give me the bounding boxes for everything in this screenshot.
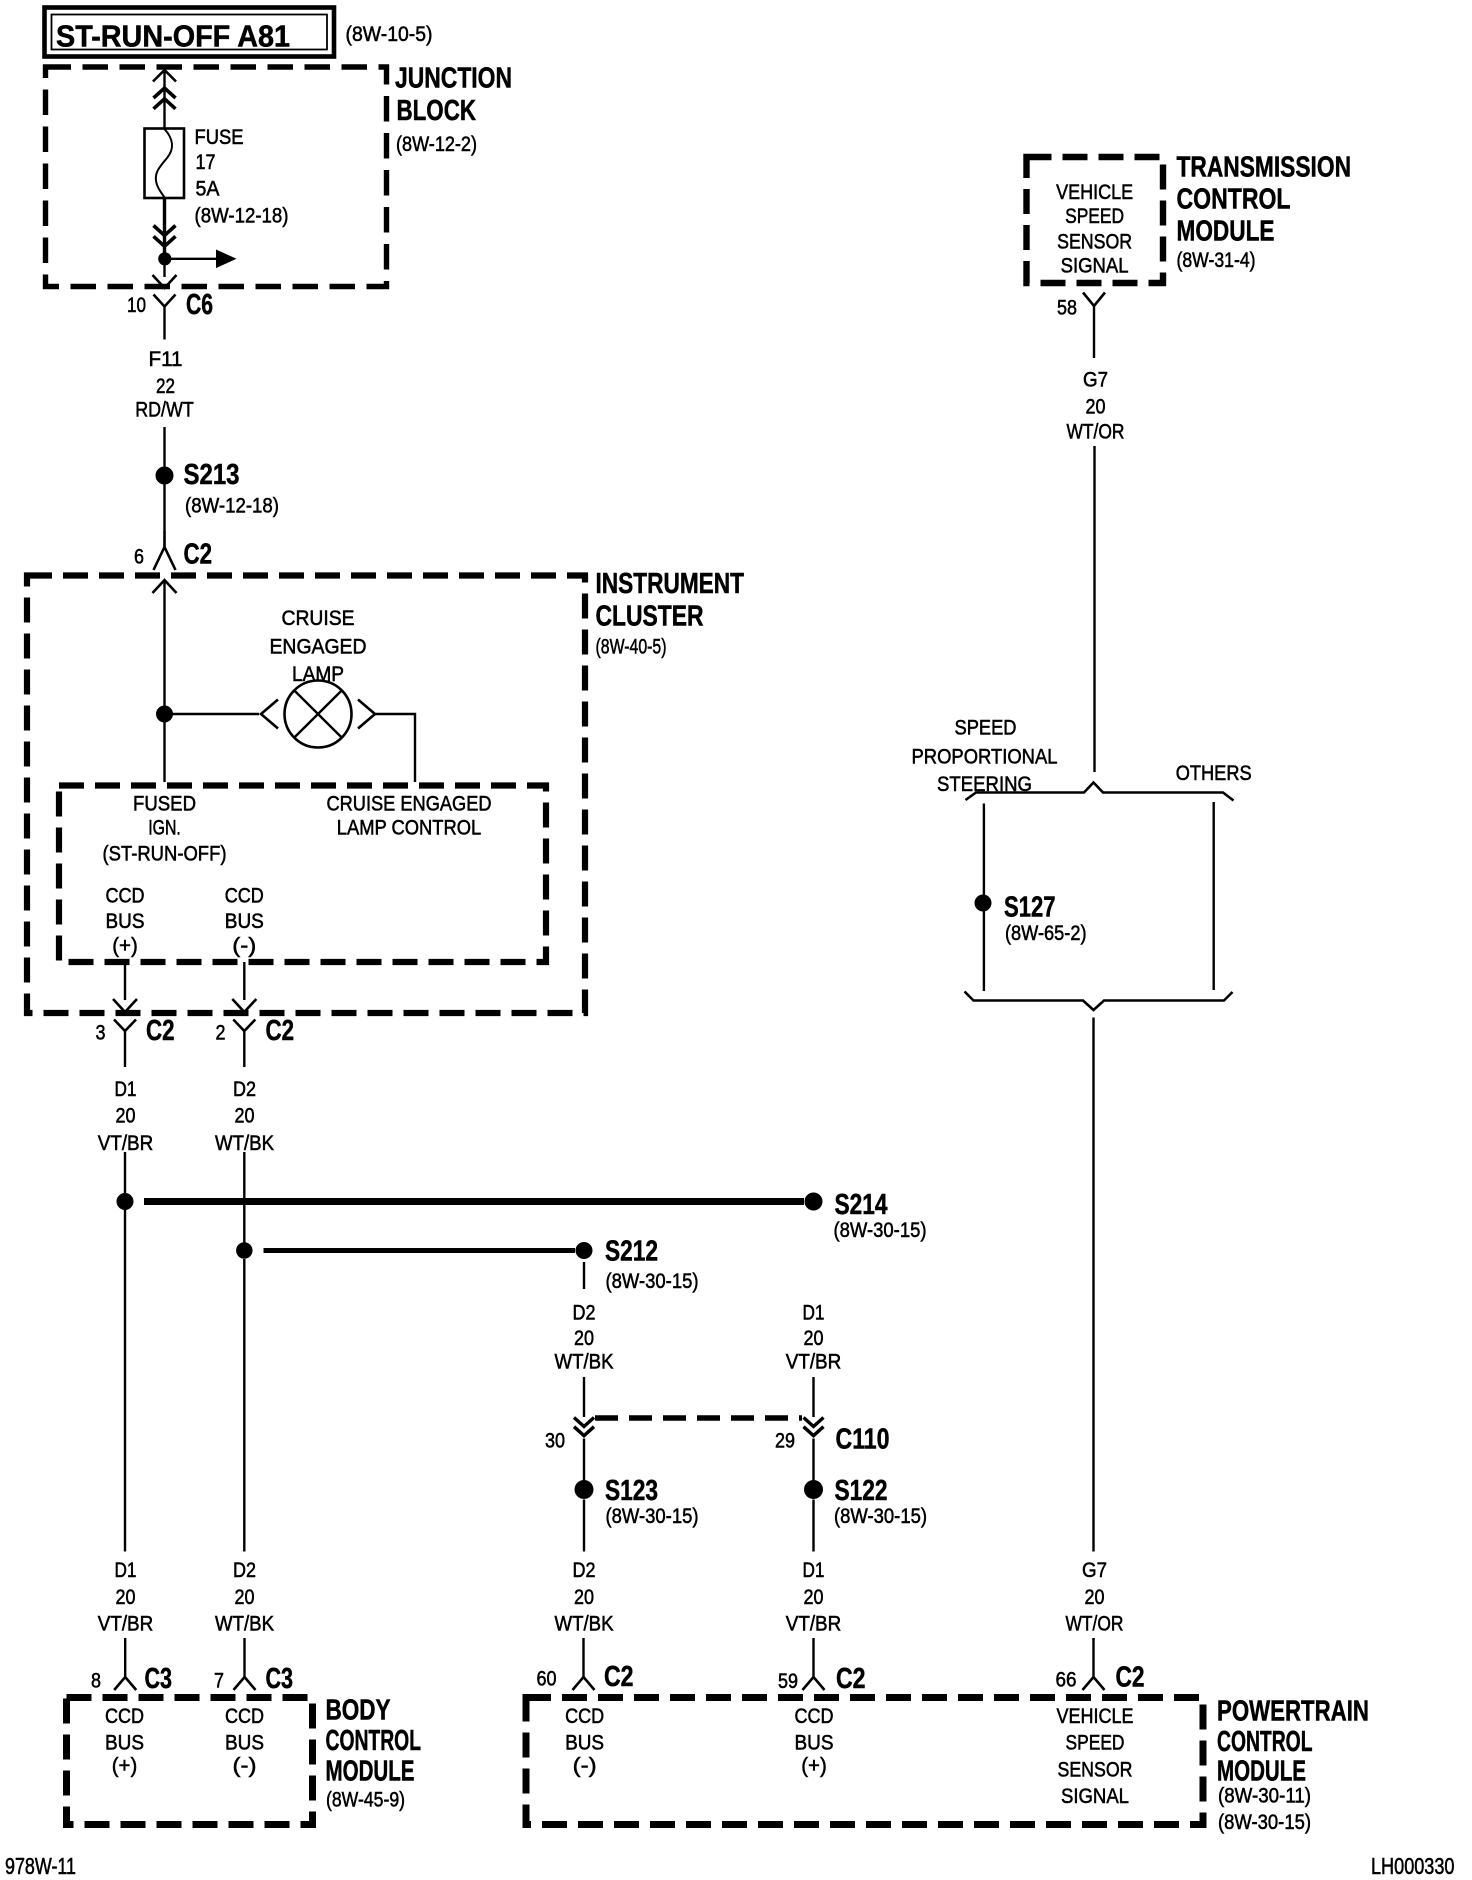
svg-text:LAMP CONTROL: LAMP CONTROL — [337, 816, 482, 840]
transmission control module title — [1177, 152, 1352, 273]
svg-text:WT/BK: WT/BK — [555, 1350, 615, 1374]
BCM pin label CCD BUS (+) — [105, 1704, 144, 1778]
wire: G7 to PCM — [1092, 1018, 1094, 1552]
pin 7 — [214, 1669, 224, 1693]
wire label D1 20 VT/BR (BCM) — [98, 1558, 154, 1636]
svg-text:S123: S123 — [605, 1475, 658, 1507]
cruise engaged lamp — [285, 681, 352, 748]
label C6 — [186, 289, 213, 321]
svg-text:VT/BR: VT/BR — [786, 1612, 842, 1636]
svg-text:66: 66 — [1056, 1668, 1077, 1692]
wire label D2 20 WT/BK (to C110) — [555, 1301, 615, 1374]
wire label D1 20 VT/BR (PCM) — [786, 1558, 842, 1636]
svg-text:C6: C6 — [186, 289, 213, 321]
svg-text:20: 20 — [1085, 1585, 1105, 1609]
svg-text:(-): (-) — [232, 934, 256, 958]
svg-text:D2: D2 — [233, 1558, 256, 1582]
pin 10 — [127, 293, 146, 317]
svg-text:(-): (-) — [573, 1754, 597, 1778]
svg-text:S212: S212 — [605, 1236, 658, 1268]
powertrain control module title — [1217, 1696, 1369, 1835]
wire: S213 to C2 — [163, 485, 165, 548]
wire: C6 to S213 — [163, 427, 165, 467]
svg-text:20: 20 — [574, 1326, 594, 1350]
label OTHERS — [1176, 761, 1252, 785]
label C110 — [836, 1424, 890, 1456]
wire stub D1 left above labels — [124, 1064, 126, 1067]
svg-text:CCD: CCD — [225, 1704, 264, 1728]
splice S213 — [156, 459, 280, 518]
svg-text:IGN.: IGN. — [148, 816, 181, 840]
svg-text:VEHICLE: VEHICLE — [1057, 1704, 1134, 1728]
junction dot D2 bus — [236, 1242, 253, 1259]
pin 59 — [778, 1669, 798, 1693]
wire: S123 down — [583, 1500, 585, 1552]
svg-text:SENSOR: SENSOR — [1058, 1758, 1133, 1782]
svg-text:S214: S214 — [835, 1189, 888, 1221]
C110 double chevron pin 30 — [574, 1418, 594, 1436]
svg-text:59: 59 — [778, 1669, 798, 1693]
svg-text:SIGNAL: SIGNAL — [1061, 1784, 1129, 1808]
svg-text:D1: D1 — [803, 1558, 825, 1582]
svg-text:BUS: BUS — [795, 1731, 834, 1755]
wire: G7 down to brace — [1093, 446, 1095, 772]
svg-text:3: 3 — [96, 1021, 106, 1045]
svg-text:G7: G7 — [1082, 1558, 1107, 1582]
svg-text:LAMP: LAMP — [292, 662, 344, 686]
svg-text:OTHERS: OTHERS — [1176, 761, 1252, 785]
svg-text:ENGAGED: ENGAGED — [270, 635, 367, 659]
connector arrowhead at junction block top — [153, 70, 176, 82]
svg-text:20: 20 — [804, 1326, 824, 1350]
wire label D2 20 WT/BK (PCM) — [555, 1558, 615, 1636]
svg-text:S127: S127 — [1004, 892, 1056, 924]
svg-text:(8W-30-15): (8W-30-15) — [606, 1504, 699, 1528]
svg-text:BUS: BUS — [225, 1731, 264, 1755]
svg-text:2: 2 — [216, 1021, 226, 1045]
wire: G7 stub above pin 66 — [1092, 1638, 1094, 1640]
svg-text:C2: C2 — [1116, 1662, 1145, 1694]
TCM pin label VEHICLE SPEED SENSOR SIGNAL — [1056, 180, 1133, 278]
svg-text:BODY: BODY — [326, 1695, 391, 1727]
instrument cluster title — [596, 568, 745, 659]
svg-text:D2: D2 — [573, 1301, 596, 1325]
wire: WT/BK to C110 — [583, 1377, 585, 1417]
pin label CCD BUS (+) — [106, 884, 145, 958]
bus line to S214 — [144, 1198, 804, 1205]
svg-text:C2: C2 — [604, 1661, 634, 1693]
connector fork pin 58 — [1083, 293, 1105, 359]
C110 double chevron pin 29 — [804, 1418, 824, 1436]
svg-text:C2: C2 — [266, 1015, 295, 1047]
svg-text:VT/BR: VT/BR — [98, 1131, 154, 1155]
label C3 (pin7) — [266, 1663, 294, 1695]
svg-text:CCD: CCD — [106, 884, 145, 908]
in-line connector double chevron (fuse output) — [154, 226, 176, 247]
svg-text:BUS: BUS — [225, 909, 264, 933]
svg-text:C3: C3 — [145, 1663, 173, 1695]
chevron CCD+ at cluster edge — [113, 999, 137, 1012]
wire label G7 20 WT/OR (TCM) — [1067, 368, 1125, 444]
svg-text:(+): (+) — [801, 1754, 827, 1778]
svg-text:8: 8 — [91, 1669, 101, 1693]
wire: D1 bus down — [124, 1210, 126, 1552]
pin 3 — [96, 1021, 106, 1045]
connector C3 fork pin 7 — [234, 1638, 256, 1690]
svg-text:BUS: BUS — [106, 909, 145, 933]
junction block enclosure — [46, 67, 387, 287]
pin 30 — [545, 1429, 565, 1453]
svg-text:WT/BK: WT/BK — [215, 1612, 275, 1636]
svg-text:C2: C2 — [184, 539, 213, 571]
svg-text:D2: D2 — [573, 1558, 596, 1582]
svg-text:CONTROL: CONTROL — [1177, 184, 1291, 216]
connector C2 fork pin 60 — [573, 1638, 595, 1690]
svg-text:PROPORTIONAL: PROPORTIONAL — [912, 745, 1058, 769]
svg-text:F11: F11 — [149, 347, 183, 371]
wire: CCD- to cluster edge — [243, 962, 245, 1000]
svg-text:TRANSMISSION: TRANSMISSION — [1177, 152, 1352, 184]
svg-text:(8W-65-2): (8W-65-2) — [1005, 921, 1087, 945]
svg-text:(8W-12-2): (8W-12-2) — [396, 132, 477, 156]
cluster internal connector block — [59, 786, 546, 963]
wire: steering branch — [983, 804, 985, 992]
fuse value label FUSE 17 5A (8W-12-18) — [195, 125, 289, 228]
sheet number 978W-11 — [5, 1853, 76, 1879]
connector C2 fork (cluster input) — [154, 531, 176, 570]
svg-text:5A: 5A — [196, 177, 221, 201]
drawing number LH000330 — [1371, 1853, 1455, 1879]
svg-text:VT/BR: VT/BR — [786, 1350, 842, 1374]
svg-text:10: 10 — [127, 293, 146, 317]
svg-text:SPEED: SPEED — [955, 716, 1017, 740]
wire: tap down to C6 — [163, 265, 165, 277]
svg-text:RD/WT: RD/WT — [135, 398, 194, 422]
svg-text:17: 17 — [196, 150, 216, 174]
chevron into C6 — [153, 275, 177, 288]
svg-text:(8W-31-4): (8W-31-4) — [1177, 248, 1256, 272]
label C2 (pin60) — [604, 1661, 634, 1693]
svg-text:POWERTRAIN: POWERTRAIN — [1217, 1696, 1369, 1728]
svg-text:CONTROL: CONTROL — [1217, 1726, 1313, 1758]
pin 29 — [775, 1429, 795, 1453]
splice S212 — [576, 1236, 699, 1294]
in-line connector double chevron (feed) — [154, 88, 176, 109]
svg-text:C2: C2 — [146, 1015, 175, 1047]
svg-text:CLUSTER: CLUSTER — [596, 601, 704, 633]
svg-text:BLOCK: BLOCK — [397, 95, 477, 127]
svg-text:LH000330: LH000330 — [1371, 1853, 1455, 1879]
svg-text:CRUISE: CRUISE — [282, 606, 355, 630]
connector C2 fork pin 3 — [114, 1020, 136, 1065]
svg-text:D2: D2 — [233, 1077, 256, 1101]
wire label G7 20 WT/OR (PCM) — [1066, 1558, 1124, 1636]
junction node (lamp tap) — [156, 706, 173, 723]
connector C3 fork pin 8 — [114, 1638, 136, 1690]
wire: VT/BR to C110 — [812, 1377, 814, 1417]
pin label CRUISE ENGAGED LAMP CONTROL — [327, 792, 492, 840]
chevron CCD- at cluster edge — [232, 999, 256, 1012]
svg-text:D1: D1 — [115, 1558, 137, 1582]
svg-text:30: 30 — [545, 1429, 565, 1453]
svg-text:MODULE: MODULE — [326, 1756, 415, 1788]
svg-text:58: 58 — [1057, 296, 1077, 320]
svg-text:ST-RUN-OFF A81: ST-RUN-OFF A81 — [56, 19, 290, 54]
pin label FUSED IGN (ST-RUN-OFF) — [103, 792, 227, 866]
wire: D2 to S212 bus — [243, 1152, 245, 1243]
svg-text:CRUISE ENGAGED: CRUISE ENGAGED — [327, 792, 492, 816]
svg-text:BUS: BUS — [105, 1731, 144, 1755]
svg-text:(8W-10-5): (8W-10-5) — [346, 22, 433, 46]
pin 8 — [91, 1669, 101, 1693]
wire: S122 down — [812, 1500, 814, 1552]
svg-text:(8W-30-15): (8W-30-15) — [606, 1269, 699, 1293]
svg-text:(-): (-) — [233, 1754, 257, 1778]
svg-text:(8W-12-18): (8W-12-18) — [195, 204, 289, 228]
svg-text:(8W-12-18): (8W-12-18) — [185, 494, 279, 518]
wire label F11 22 RD/WT — [135, 347, 194, 422]
svg-text:C110: C110 — [836, 1424, 890, 1456]
wire label D2 20 WT/BK (BCM) — [215, 1558, 275, 1636]
svg-text:(8W-30-15): (8W-30-15) — [1218, 1810, 1311, 1834]
svg-text:60: 60 — [537, 1667, 557, 1691]
wire: C110 to S122 — [812, 1439, 814, 1481]
brace bottom (branches rejoin) — [965, 992, 1233, 1011]
svg-text:20: 20 — [574, 1585, 594, 1609]
transmission control module enclosure — [1027, 157, 1164, 283]
wire: lamp to lamp control — [375, 714, 415, 782]
svg-text:29: 29 — [775, 1429, 795, 1453]
label C2 (pin59) — [836, 1663, 866, 1695]
svg-text:S122: S122 — [835, 1475, 888, 1507]
connector C110 dashed line — [595, 1415, 802, 1421]
wire: A81 feed down to fuse — [163, 70, 165, 128]
svg-text:SPEED: SPEED — [1065, 204, 1124, 228]
wire label D1 20 VT/BR (to C110) — [786, 1301, 842, 1374]
PCM pin label CCD BUS (+) — [795, 1704, 834, 1778]
svg-text:20: 20 — [235, 1104, 255, 1128]
wire: tap to lamp — [165, 713, 260, 715]
label C2 — [184, 539, 213, 571]
svg-text:(8W-30-11): (8W-30-11) — [1218, 1784, 1311, 1808]
fuse 17 5A — [145, 129, 185, 199]
svg-text:WT/BK: WT/BK — [215, 1131, 275, 1155]
junction block title — [395, 63, 512, 157]
wire: fuse output — [163, 198, 166, 253]
svg-text:SIGNAL: SIGNAL — [1061, 254, 1129, 278]
pin 58 — [1057, 296, 1077, 320]
svg-text:CCD: CCD — [795, 1704, 834, 1728]
splice S122 — [804, 1475, 927, 1528]
body control module enclosure — [67, 1698, 313, 1825]
svg-text:VEHICLE: VEHICLE — [1056, 180, 1133, 204]
svg-text:20: 20 — [804, 1585, 824, 1609]
svg-text:D1: D1 — [115, 1077, 137, 1101]
svg-text:20: 20 — [116, 1585, 136, 1609]
svg-text:S213: S213 — [184, 459, 240, 491]
svg-text:(8W-30-15): (8W-30-15) — [834, 1218, 927, 1242]
wire: others branch — [1212, 802, 1214, 990]
svg-text:7: 7 — [214, 1669, 224, 1693]
svg-text:(8W-45-9): (8W-45-9) — [326, 1788, 405, 1812]
brace top (G7 splits) — [966, 783, 1234, 801]
wire: CCD+ to cluster edge — [124, 962, 126, 1000]
svg-text:WT/BK: WT/BK — [555, 1612, 615, 1636]
splice S127 — [975, 892, 1087, 946]
svg-text:CCD: CCD — [225, 884, 264, 908]
svg-text:SENSOR: SENSOR — [1057, 230, 1132, 254]
PCM pin label VEHICLE SPEED SENSOR SIGNAL — [1057, 1704, 1134, 1808]
svg-text:(8W-30-15): (8W-30-15) — [834, 1504, 927, 1528]
connector C2 fork pin 59 — [803, 1638, 825, 1690]
wire: D2 bus down — [243, 1259, 245, 1552]
svg-text:22: 22 — [156, 374, 175, 398]
svg-text:20: 20 — [1086, 395, 1106, 419]
lamp right contact — [358, 700, 375, 729]
body control module title — [326, 1695, 422, 1812]
svg-text:SPEED: SPEED — [1066, 1731, 1125, 1755]
svg-text:VT/BR: VT/BR — [98, 1612, 154, 1636]
label C2 (pin3) — [146, 1015, 175, 1047]
wire: D1 to S214 bus — [124, 1152, 126, 1193]
lamp left contact — [261, 700, 278, 729]
pin 60 — [537, 1667, 557, 1691]
connector C6 fork — [154, 295, 176, 340]
label C2 (pin2) — [266, 1015, 295, 1047]
label SPEED PROPORTIONAL STEERING — [912, 716, 1058, 797]
label (8W-10-5) — [346, 22, 433, 46]
svg-text:MODULE: MODULE — [1177, 216, 1275, 248]
svg-text:20: 20 — [116, 1104, 136, 1128]
powertrain control module enclosure — [526, 1698, 1203, 1825]
svg-text:CONTROL: CONTROL — [326, 1725, 422, 1757]
connector C2 fork pin 66 — [1083, 1638, 1105, 1690]
svg-text:6: 6 — [134, 545, 144, 569]
svg-text:JUNCTION: JUNCTION — [395, 63, 512, 95]
svg-text:FUSE: FUSE — [195, 125, 244, 149]
svg-text:20: 20 — [235, 1585, 255, 1609]
svg-text:(ST-RUN-OFF): (ST-RUN-OFF) — [103, 842, 227, 866]
pin 66 — [1056, 1668, 1077, 1692]
junction dot D1 bus — [117, 1193, 134, 1210]
svg-text:CCD: CCD — [105, 1704, 144, 1728]
wire: tap to fused ign input — [163, 714, 165, 782]
splice S214 — [805, 1189, 927, 1242]
chevron entering cluster — [153, 580, 177, 593]
svg-text:WT/OR: WT/OR — [1066, 1612, 1124, 1636]
svg-text:CCD: CCD — [565, 1704, 604, 1728]
arrow to other circuits — [171, 250, 237, 269]
svg-text:D1: D1 — [803, 1301, 825, 1325]
wire: C110 to S123 — [583, 1439, 585, 1481]
svg-text:C3: C3 — [266, 1663, 294, 1695]
connector C2 fork pin 2 — [233, 1020, 255, 1065]
svg-text:C2: C2 — [836, 1663, 866, 1695]
lamp label CRUISE ENGAGED LAMP — [270, 606, 367, 686]
svg-text:G7: G7 — [1083, 368, 1108, 392]
svg-text:(+): (+) — [112, 1754, 138, 1778]
BCM pin label CCD BUS (-) — [225, 1704, 264, 1778]
svg-text:(8W-40-5): (8W-40-5) — [596, 635, 667, 659]
svg-text:INSTRUMENT: INSTRUMENT — [596, 568, 745, 600]
svg-text:978W-11: 978W-11 — [5, 1853, 76, 1879]
svg-text:WT/OR: WT/OR — [1067, 420, 1125, 444]
label C2 (pin66) — [1116, 1662, 1145, 1694]
node A81: ST-RUN-OFF feed box — [45, 8, 335, 57]
svg-text:BUS: BUS — [565, 1731, 604, 1755]
pin 2 — [216, 1021, 226, 1045]
svg-text:(+): (+) — [112, 934, 138, 958]
PCM pin label CCD BUS (-) — [565, 1704, 604, 1778]
bus line to S212 — [264, 1248, 576, 1253]
label C3 (pin8) — [145, 1663, 173, 1695]
junction tap dot — [158, 252, 171, 265]
wire label D1 20 VT/BR (left) — [98, 1077, 154, 1155]
svg-text:FUSED: FUSED — [133, 792, 196, 816]
pin 6 — [134, 545, 144, 569]
wire stub D2 above labels — [243, 1064, 245, 1067]
instrument cluster enclosure — [27, 576, 585, 1014]
wire label D2 20 WT/BK (second) — [215, 1077, 275, 1155]
splice S123 — [575, 1475, 699, 1528]
pin label CCD BUS (-) — [225, 884, 264, 958]
wire: S212 down stub — [583, 1262, 585, 1289]
wire: cluster feed down — [163, 580, 165, 714]
